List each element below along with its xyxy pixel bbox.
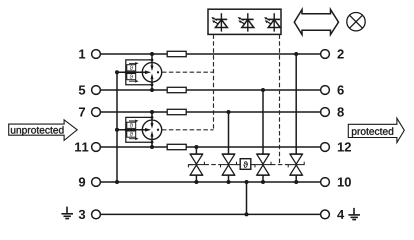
terminal 12 <box>321 143 330 152</box>
node ground-row3 <box>245 212 249 216</box>
suppressor diode V1 <box>188 154 204 182</box>
node V1-row9 <box>194 180 198 184</box>
dashed riser right <box>279 34 281 164</box>
node V3-row9 <box>261 180 265 184</box>
dashed link F2 to indicator <box>162 129 214 131</box>
node F1-row5 <box>150 88 154 92</box>
terminal 3 <box>92 210 101 219</box>
node V2-row9 <box>227 180 231 184</box>
resistor R2 <box>167 87 186 92</box>
terminal 4 <box>321 210 330 219</box>
resistor R4 <box>167 144 186 149</box>
double-headed arrow <box>294 10 338 35</box>
node V4-row9 <box>294 180 298 184</box>
node V1-row11 <box>194 145 198 149</box>
terminal 5 <box>92 86 101 95</box>
LED 2 <box>238 13 254 31</box>
wire row11 to V1 <box>195 147 197 154</box>
node F2-row11 <box>150 145 154 149</box>
arrester F2 (gas discharge tube with thermal disconnects) <box>117 112 162 147</box>
ground wire row9 to row3 <box>246 182 248 214</box>
suppressor diode V3 <box>255 154 271 182</box>
resistor R1 <box>167 51 186 56</box>
wire row 1-2 <box>100 53 320 55</box>
node common-GDT1 <box>115 70 119 74</box>
node V3-row5 <box>261 88 265 92</box>
wire row7 to V2 <box>228 112 230 154</box>
wire row 11-12 <box>100 146 320 148</box>
wire row1 to V4 <box>295 54 297 154</box>
node V4-row1 <box>294 52 298 56</box>
thermal fuse box <box>240 159 251 170</box>
terminal 6 <box>321 86 330 95</box>
ground right <box>348 208 360 220</box>
terminal 11 <box>92 143 101 152</box>
node common-GDT2 <box>115 128 119 132</box>
node common-row9 <box>115 180 119 184</box>
wire row5 to V3 <box>262 90 264 154</box>
optical indicator lamp <box>347 13 365 31</box>
wire row 5-6 <box>100 89 320 91</box>
unprotected arrow label <box>9 120 78 141</box>
LED 1 <box>211 13 227 31</box>
terminal 8 <box>321 108 330 117</box>
suppressor diode V4 <box>288 154 304 182</box>
terminal 9 <box>92 178 101 187</box>
terminal 10 <box>321 178 330 187</box>
wire row 3-4 <box>100 213 320 215</box>
common line <box>116 72 118 182</box>
protected arrow label <box>348 118 404 142</box>
terminal 7 <box>92 108 101 117</box>
node ground-row9 <box>245 180 249 184</box>
indicator box <box>208 9 281 34</box>
terminal 1 <box>92 50 101 59</box>
terminal 2 <box>321 50 330 59</box>
dashed riser left <box>213 34 215 129</box>
node F1-row1 <box>150 52 154 56</box>
LED 3 <box>264 13 280 31</box>
node F2-row7 <box>150 110 154 114</box>
wire row 7-8 <box>100 111 320 113</box>
suppressor diode V2 <box>221 154 237 182</box>
dashed link F1 to indicator <box>162 71 214 73</box>
node V2-row7 <box>227 110 231 114</box>
arrester F1 (gas discharge tube with thermal disconnects) <box>117 54 162 90</box>
ground left <box>61 207 73 219</box>
resistor R3 <box>167 109 186 114</box>
wire row 9-10 <box>100 181 320 183</box>
dashed link suppressor row <box>189 164 289 166</box>
